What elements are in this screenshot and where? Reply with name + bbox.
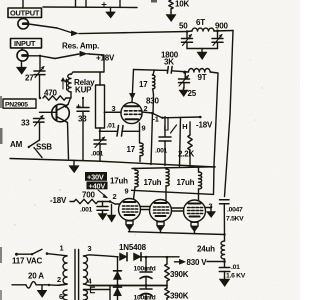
wire tube1 pin2 [142, 112, 153, 113]
ground 25 [183, 88, 185, 90]
capacitor .001 right [164, 117, 166, 137]
svg-text:-1: -1 [153, 115, 159, 124]
wire 9T to inner vertical [210, 72, 218, 194]
wire pin2 down [151, 113, 153, 164]
wire emitter down [68, 123, 69, 159]
svg-text:6: 6 [59, 292, 63, 300]
svg-text:7.5KV: 7.5KV [226, 216, 244, 223]
capacitor .001 trimmer [99, 131, 101, 139]
wire stub x86 [85, 0, 87, 7]
svg-text:17uh: 17uh [144, 178, 162, 187]
svg-text:PN2905: PN2905 [5, 102, 28, 109]
svg-text:+40V: +40V [89, 181, 106, 190]
svg-text:27: 27 [25, 74, 34, 83]
svg-text:1: 1 [60, 244, 64, 253]
wire stub x120 [119, 0, 121, 7]
wire input to switch [28, 56, 55, 59]
resistor 2.2K [189, 122, 191, 135]
wire stub x75 [75, 0, 77, 7]
wire V4 plate [198, 189, 200, 201]
resistor 10K [169, 0, 173, 9]
capacitor 33 left [34, 119, 45, 123]
ground input jack [21, 61, 23, 67]
capacitor 830 [152, 89, 155, 113]
svg-text:.0047: .0047 [227, 207, 243, 214]
connector OUTPUT label [8, 0, 42, 18]
svg-text:900: 900 [215, 22, 228, 31]
svg-text:AM: AM [10, 140, 23, 149]
wire hv label link [207, 261, 225, 263]
svg-text:1N5408: 1N5408 [119, 243, 147, 252]
capacitor .01 1.6KV [219, 268, 230, 272]
svg-text:17: 17 [127, 145, 136, 154]
svg-text:SSB: SSB [36, 143, 52, 152]
svg-text:390K: 390K [170, 292, 189, 300]
wire plate rail y72 [134, 69, 168, 72]
svg-text:-18V: -18V [50, 196, 67, 205]
svg-text:OUTPUT: OUTPUT [10, 9, 40, 18]
inductor 17uh c [198, 167, 200, 172]
ground grid return [111, 205, 113, 216]
wire ground rail mid [10, 159, 215, 168]
inductor 17uh a [134, 168, 136, 170]
scan edge smudge left 3 [0, 290, 2, 300]
tube V2 [119, 199, 141, 221]
ground tank [201, 49, 203, 53]
svg-text:33: 33 [78, 115, 87, 124]
switch L-H [168, 118, 177, 133]
resistor 470 [43, 96, 66, 100]
arrow from box [98, 190, 107, 198]
svg-text:100mfd: 100mfd [134, 266, 156, 273]
tube V3 [150, 200, 172, 222]
inductor 24uh [224, 235, 226, 241]
svg-text:3K: 3K [164, 58, 174, 67]
capacitor 27 trimmer [39, 56, 41, 71]
wire base [40, 111, 57, 113]
svg-text:-18V: -18V [196, 121, 213, 130]
ground top center [110, 7, 112, 11]
wire tube1 pin9 [139, 123, 141, 143]
cathode V4 [191, 222, 198, 226]
scan edge smudge left 2 [0, 247, 2, 263]
transistor Q1 [52, 104, 70, 122]
svg-text:2: 2 [57, 275, 61, 284]
relay arrows [63, 79, 67, 90]
svg-text:17uh: 17uh [110, 177, 128, 186]
inductor 17 second [140, 143, 143, 156]
capacitor 33 relay [82, 98, 84, 107]
svg-text:.01: .01 [231, 264, 240, 271]
inductor 17 [153, 70, 155, 75]
capacitor .0047 7.5KV [220, 200, 230, 204]
capacitor 50 trimmer [186, 32, 188, 39]
wire main rail to tank [79, 31, 192, 34]
wire relay to transistor node [66, 92, 71, 98]
relay coil K1 [68, 74, 71, 92]
wire V2 plate [134, 187, 136, 199]
svg-text:830 V: 830 V [187, 258, 208, 267]
scan edge smudge left 1 [0, 128, 3, 144]
junction tank right [216, 30, 219, 33]
svg-text:17uh: 17uh [177, 178, 195, 187]
connector INPUT label [11, 39, 42, 49]
wire -1 row [153, 113, 201, 118]
wire collector up [68, 98, 71, 105]
ground mid rail [73, 160, 75, 166]
svg-text:.001: .001 [91, 151, 104, 158]
wire V4 pin3 [205, 207, 211, 209]
transformer T1 secondary [84, 256, 88, 284]
tube V1 [121, 102, 142, 123]
wire tube1 plate [132, 70, 134, 103]
wire tube1 pin3 [104, 111, 121, 113]
resistor 390K b [166, 285, 168, 288]
svg-text:3: 3 [88, 244, 92, 253]
capacitor .01 [100, 130, 117, 132]
junction input node [39, 55, 41, 57]
junction tank left [186, 30, 189, 33]
jack J1 OUTPUT [18, 18, 29, 29]
diode D4 [114, 270, 122, 272]
svg-text:9T: 9T [198, 73, 207, 82]
svg-text:830: 830 [146, 97, 159, 106]
svg-text:700: 700 [82, 191, 95, 200]
jack J2 INPUT [17, 48, 28, 61]
diode D5 [114, 286, 122, 288]
diode D2 [120, 253, 128, 261]
wire plate bus [132, 190, 214, 194]
switch relay contact b [55, 54, 79, 59]
junction top plus [102, 3, 106, 7]
svg-text:9: 9 [142, 124, 146, 133]
svg-text:3: 3 [112, 104, 116, 113]
relay contact bus [96, 85, 105, 128]
svg-text:25: 25 [188, 89, 197, 98]
capacitor 100mfd b [145, 285, 147, 288]
wire trimmer bottoms [187, 48, 218, 50]
svg-text:2: 2 [113, 192, 117, 201]
wire tank right [214, 30, 233, 33]
wire after switch b [87, 53, 89, 55]
svg-text:Res. Amp.: Res. Amp. [62, 42, 99, 51]
junction cathode rail right [223, 233, 225, 235]
switch AM-SSB [30, 140, 40, 147]
svg-text:KUP: KUP [75, 86, 92, 95]
wire rectifier rail [141, 256, 179, 258]
capacitor .001 bias [102, 202, 104, 207]
tube V4 [184, 200, 206, 222]
wire 18v feed [71, 54, 104, 75]
wire right outer vertical [225, 31, 234, 197]
wire V2-V3 link [140, 207, 150, 210]
svg-text:.001: .001 [80, 207, 93, 214]
ground .001 bias [102, 212, 104, 215]
capacitor 900 trimmer [217, 31, 219, 38]
diode D3 [134, 253, 142, 261]
ground 10K [170, 13, 172, 15]
svg-text:6T: 6T [196, 18, 205, 27]
svg-text:INPUT: INPUT [14, 39, 36, 48]
resistor 700 [70, 201, 74, 203]
junction grid node [109, 200, 112, 203]
inductor 6T [192, 28, 214, 31]
svg-text:20 A: 20 A [28, 272, 44, 281]
wire filter mid rail [89, 285, 167, 287]
capacitor 100mfd a [145, 257, 147, 272]
wire PA plate rail [132, 167, 215, 169]
junction 25 node [183, 71, 186, 74]
switch mains [16, 249, 42, 254]
wire top rail [43, 6, 137, 9]
junction hv node [223, 260, 226, 263]
svg-text:390K: 390K [170, 270, 189, 279]
resistor 390K a [166, 257, 168, 264]
svg-text:24uh: 24uh [197, 245, 215, 254]
transformer T1 winding2 [63, 290, 67, 300]
transistor label PN2905 [3, 99, 36, 109]
svg-text:.001: .001 [155, 148, 168, 155]
svg-text:.01: .01 [107, 123, 116, 130]
junction 470 left [39, 97, 41, 99]
wire V3-V4 link [171, 208, 184, 211]
wire output to relay switch [29, 24, 58, 28]
svg-text:9: 9 [125, 187, 129, 196]
capacitor 25 trimmer [184, 72, 186, 78]
svg-text:10K: 10K [175, 0, 189, 9]
cathode V2 [126, 221, 133, 225]
wire cathode rail [129, 232, 225, 235]
svg-text:17: 17 [139, 80, 148, 89]
svg-text:50: 50 [179, 22, 188, 31]
ground hv cap [224, 277, 226, 279]
svg-text:2.2K: 2.2K [178, 150, 195, 159]
wire bus to tube1 pin3 [105, 111, 122, 113]
junction pin2 node [151, 112, 154, 115]
cathode V3 [157, 222, 164, 226]
diode column wire [117, 257, 119, 300]
svg-text:H: H [182, 122, 187, 131]
capacitor 1800-3K [167, 67, 172, 74]
ground V4 pin3 [210, 208, 212, 212]
switch relay contact a [57, 28, 71, 33]
svg-text:33: 33 [21, 119, 30, 128]
inductor 17uh b [165, 168, 167, 169]
wire V3 plate [165, 186, 167, 200]
svg-text:470: 470 [44, 89, 57, 98]
scan speckle dots [14, 59, 262, 235]
svg-text:117 VAC: 117 VAC [12, 257, 42, 266]
svg-text:100mfd: 100mfd [134, 295, 156, 300]
label +40V box [87, 181, 108, 190]
ground mains [41, 285, 43, 290]
transformer T1 core [75, 250, 79, 300]
wire LH common down [180, 117, 181, 166]
arrow 830V [175, 261, 180, 263]
scan edge smudge left 4 [0, 96, 2, 108]
transformer T1 primary [63, 256, 67, 284]
svg-text:+30V: +30V [87, 172, 104, 181]
wire grid feed [110, 202, 120, 205]
scan tick top [151, 0, 157, 3]
fuse 20A [12, 282, 67, 289]
label +30V box [85, 172, 107, 181]
svg-text:1.6 KV: 1.6 KV [226, 273, 246, 280]
inductor 9T [189, 69, 211, 72]
